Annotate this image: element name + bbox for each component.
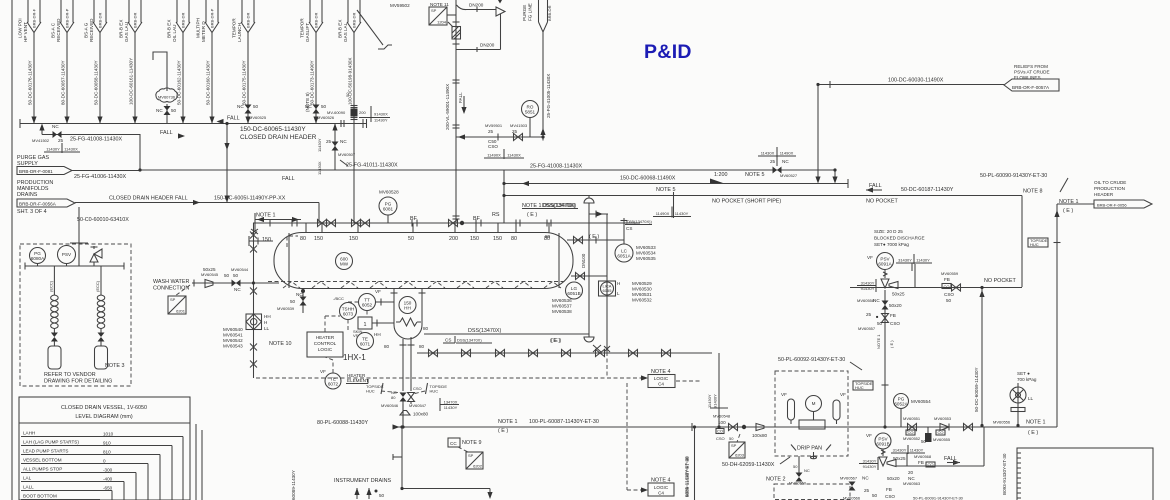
- source flag BRB-DR-F-0056A production manifolds drains: [17, 180, 75, 215]
- svg-text:NC: NC: [156, 108, 163, 113]
- svg-text:11490X: 11490X: [487, 153, 501, 158]
- svg-text:50-C0-60010-63410X: 50-C0-60010-63410X: [77, 217, 129, 223]
- svg-text:SP: SP: [170, 297, 176, 302]
- vendor pump leg x=54.4: [48, 266, 58, 346]
- svg-text:FALL: FALL: [227, 116, 240, 122]
- svg-text:M: M: [812, 401, 816, 406]
- svg-text:NOTE 5: NOTE 5: [745, 172, 764, 178]
- svg-text:-/BCC: -/BCC: [333, 296, 344, 301]
- svg-text:150-DC-60065-11430Y: 150-DC-60065-11430Y: [240, 126, 306, 133]
- svg-text:FG LINE: FG LINE: [528, 3, 533, 21]
- svg-text:FALL: FALL: [175, 196, 188, 202]
- CC note 9: [448, 438, 481, 452]
- svg-text:31430Y: 31430Y: [898, 258, 912, 263]
- svg-text:50: 50: [345, 92, 350, 97]
- svg-text:50-DC-60173-11490Y: 50-DC-60173-11490Y: [310, 60, 315, 105]
- svg-text:6071: 6071: [360, 342, 371, 347]
- svg-text:REFER TO VENDOR: REFER TO VENDOR: [44, 372, 96, 378]
- svg-text:25-FG-41006-11430X: 25-FG-41006-11430X: [74, 174, 126, 180]
- pipe 50-DC-60162-11430Y: [177, 32, 186, 124]
- heater pocket HX well: [391, 288, 426, 339]
- svg-text:( E ): ( E ): [889, 340, 894, 348]
- svg-text:BRB-OR: BRB-OR: [547, 5, 552, 21]
- svg-text:FALL: FALL: [869, 183, 882, 189]
- svg-text:5851: 5851: [525, 110, 536, 115]
- instrument TI 150 HH: [399, 297, 416, 314]
- svg-text:PSV: PSV: [62, 252, 72, 257]
- svg-text:SP: SP: [468, 453, 474, 458]
- svg-text:HUC: HUC: [430, 389, 439, 394]
- svg-text:MV60568: MV60568: [914, 454, 932, 459]
- labels BF RS: [410, 212, 500, 222]
- svg-text:MV60555: MV60555: [933, 437, 951, 442]
- svg-text:MV60736: MV60736: [158, 95, 176, 100]
- FALL marker on riser: [458, 92, 467, 114]
- svg-text:91430Y: 91430Y: [861, 286, 875, 291]
- svg-text:SIZE: 20 D 25: SIZE: 20 D 25: [874, 229, 903, 234]
- svg-text:FB: FB: [890, 313, 896, 318]
- instrument LC 6051A: [615, 218, 656, 262]
- svg-text:6052: 6052: [362, 303, 373, 308]
- level diagram table: [19, 397, 190, 500]
- PSV B discharge: [896, 427, 984, 467]
- valve MV60507 25 NC: [317, 124, 356, 176]
- svg-text:HP VENT: HP VENT: [23, 22, 28, 42]
- svg-text:MV60553: MV60553: [934, 416, 952, 421]
- vessel internals vortex breaker dashes: [283, 282, 561, 289]
- svg-text:( E ): ( E ): [589, 234, 599, 240]
- class break 11430Y/11430X: [44, 151, 80, 153]
- vendor pump leg x=101: [95, 266, 105, 346]
- svg-text:810: 810: [103, 450, 111, 455]
- svg-text:CSO: CSO: [944, 292, 954, 297]
- svg-text:ALL PUMPS STOP: ALL PUMPS STOP: [23, 467, 62, 472]
- svg-text:1010: 1010: [103, 432, 114, 437]
- hangers MV60552 MV60555: [903, 427, 951, 444]
- svg-text:100: 100: [718, 420, 726, 425]
- svg-text:CLOSED DRAIN HEADER: CLOSED DRAIN HEADER: [109, 196, 174, 202]
- svg-text:25-FG-41011-11430X: 25-FG-41011-11430X: [346, 163, 398, 169]
- svg-text:LEAD PUMP STARTS: LEAD PUMP STARTS: [23, 449, 68, 454]
- instrument 600 MW tag: [336, 253, 353, 270]
- instrument PG 6052A: [894, 394, 932, 428]
- topside huc tags: [366, 383, 447, 394]
- pump baseplate: [799, 420, 825, 429]
- svg-text:NC: NC: [340, 139, 347, 144]
- svg-text:MV60543: MV60543: [223, 344, 243, 349]
- svg-text:METER D: METER D: [201, 21, 206, 42]
- source flag purge FG line: [522, 0, 552, 32]
- svg-text:( E ): ( E ): [550, 338, 560, 344]
- svg-text:FALL: FALL: [458, 92, 463, 103]
- svg-text:( E ): ( E ): [498, 428, 508, 434]
- svg-text:CS: CS: [626, 226, 632, 231]
- svg-text:50: 50: [253, 104, 259, 109]
- svg-text:MV60530: MV60530: [632, 287, 652, 292]
- svg-text:CONNECTION: CONNECTION: [153, 286, 189, 292]
- svg-text:1HX-1: 1HX-1: [343, 353, 366, 362]
- topside huc on riser: [1028, 238, 1061, 247]
- svg-text:MV60507: MV60507: [338, 152, 356, 157]
- svg-text:150: 150: [470, 236, 479, 242]
- svg-text:MV60542: MV60542: [223, 338, 243, 343]
- note 1 dimension left: [251, 213, 301, 235]
- svg-text:50-DC-60175-11430Y: 50-DC-60175-11430Y: [242, 60, 247, 105]
- pipe 50-PL-60090 tag: [980, 173, 1068, 192]
- svg-text:LEVEL DIAGRAM (mm): LEVEL DIAGRAM (mm): [75, 414, 133, 420]
- svg-text:BF: BF: [410, 216, 418, 222]
- svg-text:50-DC-60162-11430Y: 50-DC-60162-11430Y: [177, 60, 182, 105]
- svg-text:MV60567: MV60567: [840, 476, 858, 481]
- svg-text:BS-A G: BS-A G: [83, 22, 88, 38]
- svg-text:PRODUCTION: PRODUCTION: [1094, 186, 1125, 191]
- svg-text:DSS(13470X): DSS(13470X): [457, 338, 482, 343]
- svg-text:CO: CO: [928, 462, 934, 467]
- svg-text:NOTE 3: NOTE 3: [105, 363, 124, 369]
- valve pair near x457: [449, 220, 465, 227]
- svg-text:NO POCKET: NO POCKET: [984, 278, 1016, 284]
- destination flag BRB-OR-F-0057A: [1004, 64, 1059, 91]
- svg-text:31430Y: 31430Y: [861, 280, 875, 285]
- svg-text:50x20: 50x20: [889, 303, 902, 308]
- svg-text:FALL: FALL: [160, 130, 173, 136]
- level row LEAD PUMP STARTS: [21, 449, 160, 500]
- svg-text:MV59502: MV59502: [390, 3, 410, 8]
- wire bracket to cloud line: [153, 52, 167, 91]
- vendor cylinder 2: [95, 346, 108, 369]
- svg-text:50-DC-60176-11430Y: 50-DC-60176-11430Y: [28, 60, 33, 105]
- svg-text:50x25: 50x25: [203, 267, 216, 272]
- nozzle stubs on vessel top: [306, 223, 549, 233]
- svg-text:VF: VF: [353, 333, 359, 338]
- svg-text:50: 50: [379, 493, 385, 498]
- svg-text:11430Y: 11430Y: [444, 405, 458, 410]
- coupling guard right VF: [833, 392, 846, 424]
- pipe 100-DC-60030-11490X: [818, 78, 1004, 89]
- svg-text:MV60529: MV60529: [632, 281, 652, 286]
- svg-text:13470X: 13470X: [444, 399, 458, 404]
- svg-text:6073: 6073: [343, 312, 354, 317]
- svg-text:LAL: LAL: [23, 476, 32, 481]
- instrument PG 6081: [379, 190, 399, 224]
- HX tag: [343, 353, 366, 362]
- svg-text:6081: 6081: [383, 207, 394, 212]
- svg-text:25-FG-41008-11430X: 25-FG-41008-11430X: [530, 164, 582, 170]
- svg-text:HUC: HUC: [366, 389, 375, 394]
- svg-text:P&ID: P&ID: [644, 41, 692, 63]
- level row LAHH: [21, 431, 183, 500]
- svg-text:MV60563: MV60563: [903, 481, 921, 486]
- svg-text:HH: HH: [374, 332, 381, 337]
- svg-text:MV60534: MV60534: [636, 251, 656, 256]
- svg-text:25: 25: [864, 488, 870, 493]
- source flag BRB-DR-F-0081 purge gas supply: [17, 155, 72, 175]
- pipe 50-DC-60173-11490Y: [310, 32, 319, 124]
- svg-text:LALL: LALL: [23, 485, 34, 490]
- svg-text:NO POCKET (SHORT PIPE): NO POCKET (SHORT PIPE): [712, 199, 781, 205]
- level row LALL: [21, 485, 113, 500]
- refer to vendor text: [44, 372, 112, 385]
- valves MV60548 cluster: [692, 414, 768, 442]
- coupling guard left VF: [781, 392, 795, 424]
- wire drop x818: [815, 85, 820, 184]
- svg-text:SP: SP: [731, 443, 737, 448]
- svg-text:NC: NC: [782, 159, 789, 164]
- heater element label: [346, 373, 369, 384]
- svg-text:DRAWING FOR DETAILING: DRAWING FOR DETAILING: [44, 379, 112, 385]
- pipe no pocket short pipe line: [503, 183, 1042, 205]
- svg-text:150: 150: [314, 236, 323, 242]
- standpipe vent cap: [584, 196, 594, 203]
- svg-text:MV60550: MV60550: [789, 481, 807, 486]
- svg-text:FB: FB: [886, 487, 892, 492]
- svg-text:C4: C4: [658, 382, 664, 387]
- svg-text:1204: 1204: [437, 20, 447, 25]
- svg-text:50: 50: [321, 104, 327, 109]
- svg-text:100-DC-60161-11430Y: 100-DC-60161-11430Y: [129, 58, 134, 105]
- svg-text:MV60525: MV60525: [249, 115, 267, 120]
- svg-text:-300: -300: [103, 468, 113, 473]
- svg-text:LAUNCH: LAUNCH: [237, 23, 242, 42]
- svg-text:50x25: 50x25: [892, 292, 905, 297]
- svg-text:BRB-DR-F-0081: BRB-DR-F-0081: [19, 169, 53, 174]
- svg-text:HEADER: HEADER: [1094, 192, 1114, 197]
- svg-text:NOTE 1: NOTE 1: [1026, 420, 1045, 426]
- level row ALL PUMPS STOP: [21, 467, 136, 500]
- svg-text:50: 50: [233, 273, 239, 278]
- heater element coil: [396, 318, 421, 326]
- svg-text:25: 25: [770, 159, 776, 164]
- svg-text:50: 50: [408, 236, 414, 242]
- svg-text:50-DC-60160-11430Y: 50-DC-60160-11430Y: [206, 60, 211, 105]
- pipe 25-FG-41008 long run: [140, 164, 835, 171]
- pipe over vessel manifold: [253, 222, 640, 224]
- valve tags MV60540-43: [223, 327, 243, 349]
- pipe to oil header valves MV60556: [964, 420, 1046, 437]
- wire 41008 corner down to 60068: [832, 170, 837, 184]
- DSS label left of standpipe: [542, 203, 578, 209]
- svg-text:150-DC-60068-11490X: 150-DC-60068-11490X: [620, 176, 676, 182]
- PSV A inlet drop with valves: [857, 290, 902, 427]
- svg-text:L: L: [617, 291, 620, 296]
- svg-text:25: 25: [512, 129, 518, 134]
- drawing border left: [11, 0, 13, 500]
- logic box C4 lower NOTE 4: [648, 478, 674, 497]
- svg-text:MV60528: MV60528: [379, 190, 399, 195]
- svg-text:6201: 6201: [176, 309, 186, 314]
- svg-text:50: 50: [793, 464, 798, 469]
- svg-text:PURGE: PURGE: [522, 5, 527, 21]
- svg-text:LL: LL: [264, 326, 270, 331]
- wire drop x227 header1 to header2: [224, 124, 294, 203]
- svg-text:BRB-DR-F: BRB-DR-F: [32, 8, 37, 28]
- svg-text:(ECC): (ECC): [95, 280, 100, 292]
- svg-text:MV60554: MV60554: [911, 399, 931, 404]
- closed drain header 150-DC-60065-11430Y: [20, 116, 367, 142]
- svg-text:100x80: 100x80: [413, 412, 429, 417]
- svg-text:NC: NC: [237, 104, 244, 109]
- svg-text:NOTE 10: NOTE 10: [269, 341, 291, 347]
- svg-text:1:200: 1:200: [714, 172, 728, 178]
- svg-text:VF: VF: [375, 289, 381, 294]
- instrument LCA 6050: [246, 314, 271, 331]
- valve MV41502 NC 25: [32, 124, 140, 144]
- valve NC50 on cloud line: [156, 104, 177, 124]
- svg-text:6080A: 6080A: [31, 256, 45, 261]
- svg-text:SET● 7000 kPag: SET● 7000 kPag: [874, 242, 909, 247]
- svg-text:LAHH: LAHH: [23, 431, 35, 436]
- svg-text:FB: FB: [918, 460, 924, 465]
- left inlet nozzle: [249, 236, 273, 246]
- svg-text:GAS LAU: GAS LAU: [124, 22, 129, 42]
- bridle bottom E: [550, 338, 560, 344]
- pipe 150-DC-60068-11490X: [504, 172, 848, 188]
- instrument PSV 6091B: [866, 433, 925, 454]
- svg-text:50: 50: [877, 321, 883, 326]
- pipe 50-PL-60092 tag: [778, 357, 862, 370]
- specialty SP 6203: [729, 434, 745, 458]
- svg-text:910: 910: [103, 441, 111, 446]
- svg-text:MV60531: MV60531: [632, 292, 652, 297]
- svg-text:INSTRUMENT DRAINS: INSTRUMENT DRAINS: [334, 478, 392, 484]
- pump motor M: [806, 396, 822, 421]
- svg-text:50-DC-60187-11430Y: 50-DC-60187-11430Y: [901, 187, 954, 193]
- svg-text:11430X: 11430X: [64, 147, 78, 152]
- valve MV60539 50 NC: [277, 288, 307, 313]
- incoming line flag at x=183: [166, 0, 190, 42]
- incoming line flag at x=135: [118, 0, 142, 42]
- pipe 50-DC-60176-11430Y: [28, 32, 37, 124]
- svg-text:200: 200: [359, 110, 366, 115]
- relief valve B body: [859, 449, 906, 470]
- svg-text:6051B: 6051B: [567, 291, 580, 296]
- pipe 50-DC-60058-11430Y: [94, 32, 103, 124]
- specialty SP 6201: [168, 285, 190, 314]
- svg-text:NOTE 5: NOTE 5: [656, 187, 675, 193]
- svg-text:MV60527: MV60527: [780, 173, 798, 178]
- instrument drains: [334, 478, 392, 499]
- pipe 50-DC-60175-11430Y: [242, 32, 251, 124]
- svg-text:LAH (LAG PUMP STARTS): LAH (LAG PUMP STARTS): [23, 440, 79, 445]
- svg-text:50x20: 50x20: [887, 476, 900, 481]
- instrument TE 6071: [353, 329, 381, 350]
- svg-text:150: 150: [262, 237, 271, 243]
- valves MV59501 MV41503: [456, 123, 543, 159]
- note 1 DSS labels over vessel right: [522, 203, 576, 218]
- instrument LICA 6055: [599, 214, 653, 352]
- bridle lower valves: [593, 345, 607, 378]
- svg-text:DN200: DN200: [469, 3, 484, 8]
- valve MV60526 NC: [305, 104, 335, 120]
- topside huc on psv inlet: [853, 381, 889, 390]
- svg-text:6072: 6072: [328, 382, 339, 387]
- svg-text:BRB-DR-F-0056A: BRB-DR-F-0056A: [19, 201, 57, 206]
- svg-text:50-DC-60058-11430Y: 50-DC-60058-11430Y: [94, 60, 99, 105]
- svg-text:CONTROL: CONTROL: [314, 341, 337, 346]
- svg-text:CO: CO: [908, 430, 914, 435]
- svg-text:C4: C4: [658, 491, 664, 496]
- wire riser x1057: [1056, 204, 1058, 427]
- svg-text:NOTE 9: NOTE 9: [462, 440, 481, 446]
- svg-text:11430Y: 11430Y: [916, 258, 930, 263]
- svg-text:11430Y: 11430Y: [374, 118, 388, 123]
- pump package dashed box: [775, 371, 848, 456]
- svg-text:BS-A C: BS-A C: [50, 22, 55, 38]
- svg-text:6051A: 6051A: [617, 254, 631, 259]
- svg-text:100-PL-60087-11430Y-ET-30: 100-PL-60087-11430Y-ET-30: [529, 419, 599, 425]
- pipe DSS boundary line: [423, 326, 589, 334]
- vent DN200 upper: [457, 0, 506, 16]
- svg-text:BRB-DR: BRB-DR: [181, 13, 186, 28]
- svg-text:(055(13470X)): (055(13470X)): [626, 219, 652, 224]
- level row BOOT BOTTOM: [21, 494, 100, 500]
- svg-text:11430Y: 11430Y: [46, 147, 60, 152]
- svg-text:80: 80: [511, 236, 517, 242]
- svg-text:LOW POI: LOW POI: [17, 18, 22, 38]
- pipe 50-C0-60010-63410X: [76, 207, 130, 266]
- svg-text:80-DC-60057-11430Y: 80-DC-60057-11430Y: [61, 60, 66, 105]
- pipe pump suction 100-PL-60087: [317, 419, 1057, 434]
- svg-text:TEMPOR: TEMPOR: [231, 18, 236, 38]
- class break 11490X/11430Y right of vessel: [653, 192, 691, 218]
- svg-text:100-DC-60030-11490X: 100-DC-60030-11490X: [888, 78, 944, 84]
- svg-text:80: 80: [423, 326, 429, 331]
- svg-text:MV60526: MV60526: [317, 115, 335, 120]
- svg-text:HUC: HUC: [1030, 242, 1039, 247]
- wire riser x712 vessel line to suction: [707, 353, 728, 427]
- level link lines right of table: [196, 424, 202, 500]
- instrument TSHH 6073: [333, 296, 357, 320]
- svg-text:DRIP PAN: DRIP PAN: [797, 446, 822, 452]
- wire corner header2 to vessel top line: [318, 203, 320, 224]
- svg-text:CSO: CSO: [488, 144, 498, 149]
- svg-text:CSO: CSO: [716, 436, 725, 441]
- wire x1022 drop: [1021, 196, 1023, 288]
- svg-text:BRB-DR: BRB-DR: [314, 13, 319, 28]
- svg-text:50x25: 50x25: [893, 456, 906, 461]
- svg-text:BRB-DR: BRB-DR: [246, 13, 251, 28]
- svg-text:50: 50: [946, 298, 952, 303]
- svg-text:MV60539: MV60539: [277, 306, 295, 311]
- svg-text:MV60532: MV60532: [632, 298, 652, 303]
- level line with LCA 6050: [250, 223, 257, 378]
- CS DSS boxed label: [443, 336, 492, 343]
- pipe 100-DC-60161-11430Y: [129, 32, 138, 124]
- svg-text:LOGIC: LOGIC: [654, 376, 669, 381]
- svg-text:MV59501: MV59501: [485, 123, 503, 128]
- svg-text:0: 0: [103, 459, 106, 464]
- svg-text:BRB-DR: BRB-DR: [352, 13, 357, 28]
- nozzle size labels: [262, 236, 550, 243]
- flange ticks over vessel: [270, 220, 551, 227]
- svg-text:FB: FB: [944, 277, 950, 282]
- drip pan: [791, 445, 831, 460]
- PSV 6091A group: [874, 229, 925, 247]
- svg-text:(ECC): (ECC): [48, 280, 53, 292]
- svg-text:HH: HH: [404, 306, 411, 311]
- bridle connection lower: [571, 273, 607, 280]
- svg-text:200-VL-59001-11490X: 200-VL-59001-11490X: [445, 84, 450, 130]
- svg-text:( E ): ( E ): [1028, 430, 1038, 436]
- svg-text:NOTE 2: NOTE 2: [766, 477, 785, 483]
- instrument PG 6080A: [30, 248, 46, 267]
- lower valve texts: [840, 470, 964, 500]
- svg-text:B093-91430Y-ET-30: B093-91430Y-ET-30: [1002, 453, 1007, 495]
- level row LAL: [21, 476, 124, 500]
- wire riser vessel to suction: [402, 404, 404, 427]
- signal dashes instruments: [325, 302, 367, 373]
- svg-text:NO POCKET: NO POCKET: [866, 199, 898, 205]
